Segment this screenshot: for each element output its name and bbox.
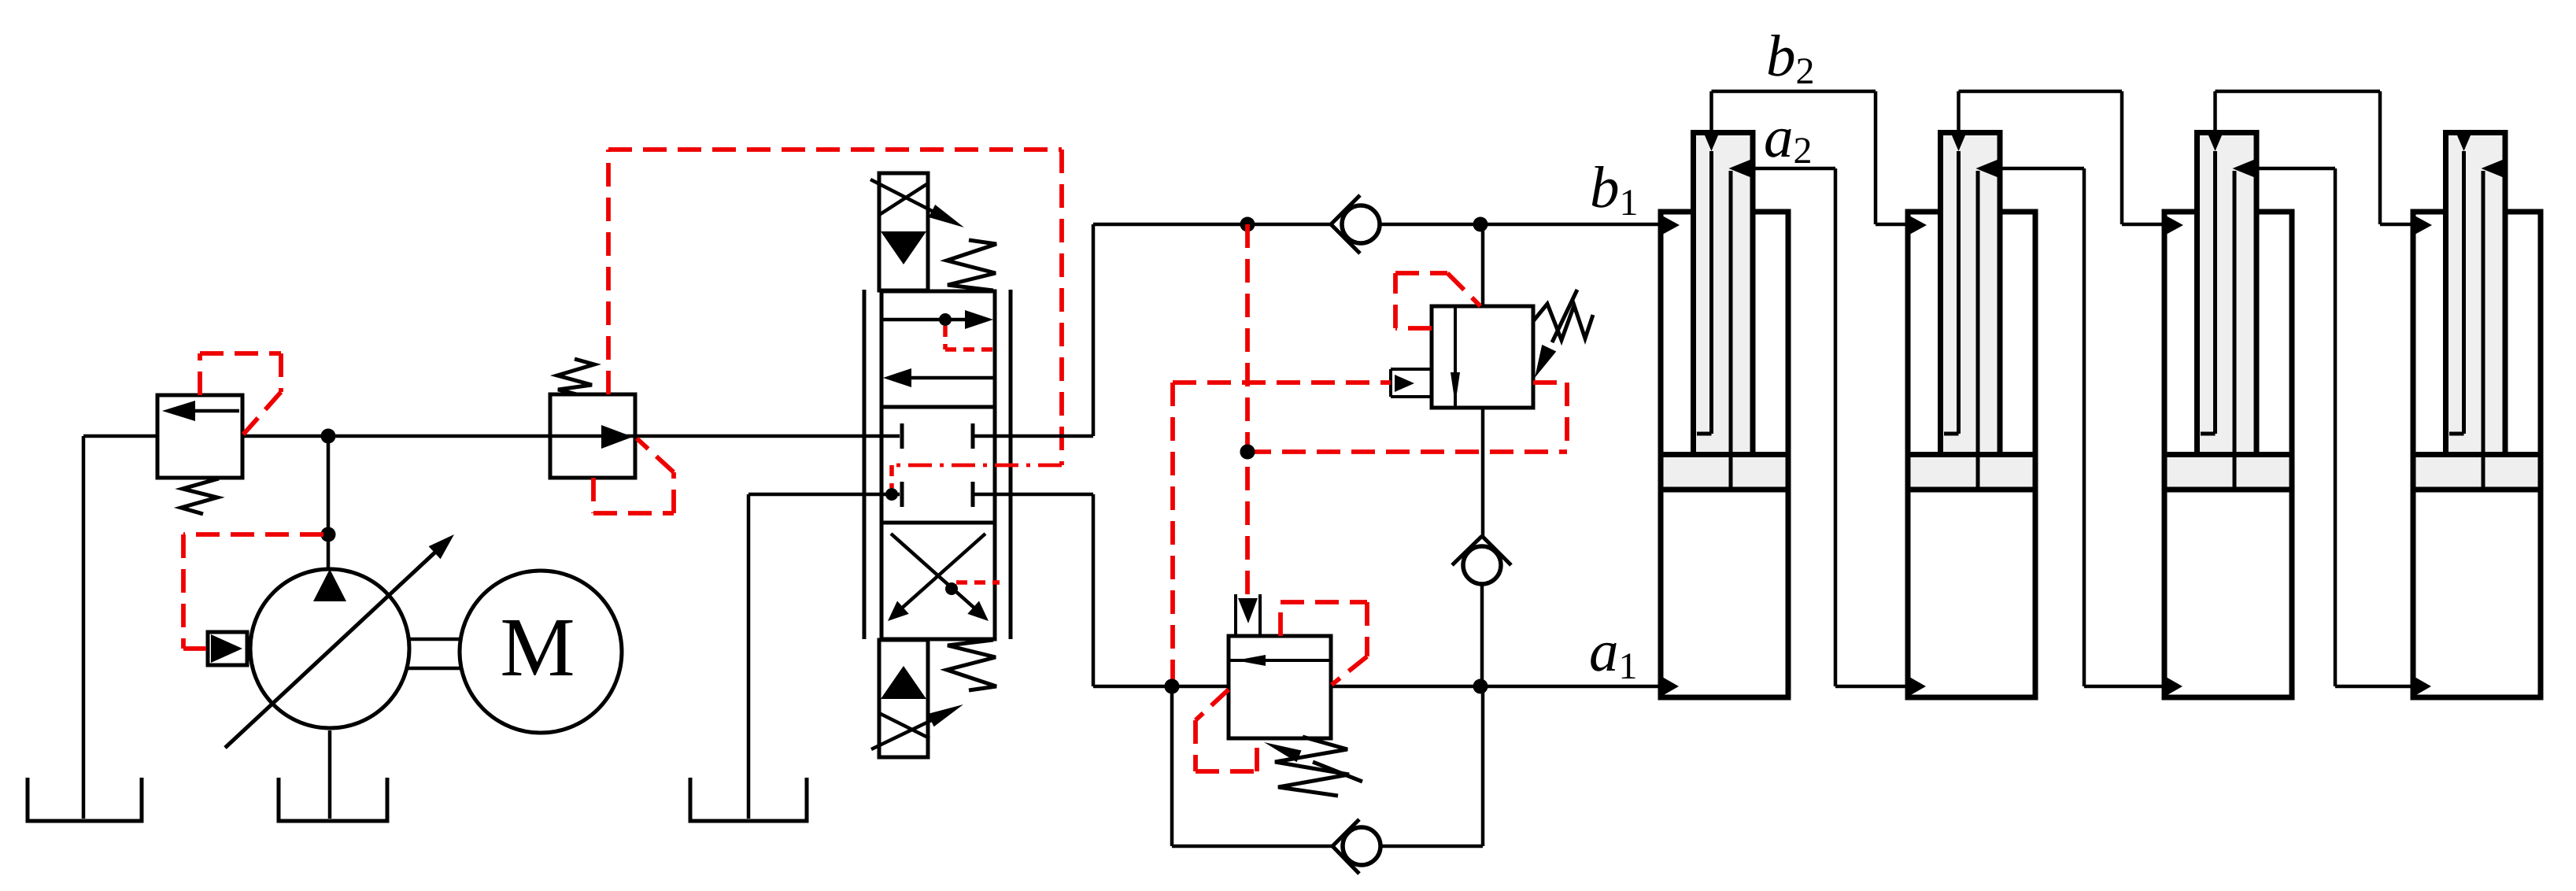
node a1 right dot: [1473, 679, 1488, 694]
CB1 internal passage with down arrow: [1451, 306, 1460, 408]
wire CV2 down to a1: [1480, 584, 1484, 686]
wire CB1 to CV2: [1481, 408, 1485, 537]
wire line a1 left segment: [1093, 685, 1229, 689]
wire DV port A to a1 drop: [973, 494, 1093, 686]
wire main pressure line P (V1 to sequence valve V2 and valve DV port P): [242, 434, 900, 438]
check valve CV3 seat: [1332, 819, 1359, 874]
label b2: [1766, 24, 1815, 92]
wire tank line from V1 down to tank T1: [82, 436, 86, 819]
pilot line (red) V2 drain loop: [593, 438, 674, 513]
telescopic cylinder C4: [2413, 133, 2541, 698]
DV bottom centering spring: [947, 640, 996, 690]
directional valve DV side rail left: [863, 290, 867, 639]
wire DV port T to tank T3: [748, 494, 900, 819]
pump variable arrow: [225, 534, 454, 748]
label a2: [1764, 105, 1813, 172]
sequence valve V2 body: [550, 394, 635, 478]
pilot line (red) DV bottom position tap: [956, 580, 1000, 585]
relief valve V1 spring: [181, 479, 219, 514]
wire b1 branch down to CB1: [1481, 224, 1485, 306]
wire line a1 right segment: [1331, 685, 1664, 689]
wire b cascade from C3 to C4: [2216, 91, 2417, 224]
wire pump outlet riser: [327, 436, 331, 570]
pilot line (red) CB1 drain to line x: [1533, 383, 1567, 452]
pump displacement actuator box: [208, 632, 247, 665]
pilot line (red) pump control: [183, 534, 323, 649]
check valve CV1 ball: [1342, 205, 1380, 243]
pilot line (red) CB1 spring chamber loop: [1395, 273, 1480, 328]
wire DV port B to b1 riser: [973, 224, 1093, 436]
pilot line (red) b1 down to CB2: [1245, 224, 1250, 594]
check valve CV2 seat: [1452, 536, 1511, 565]
pump P1 circle (variable displacement): [250, 569, 409, 728]
node b1 pilot tap dot: [1240, 217, 1255, 232]
counterbalance valve CB1 body: [1432, 306, 1533, 408]
pump outlet triangle: [313, 569, 346, 601]
wire b cascade from C2 to C3: [1959, 91, 2168, 224]
wire b cascade from C1 to C2: [1712, 91, 1912, 224]
CB1 pilot port box: [1391, 369, 1432, 397]
pilot line (red) CB2 drain loop left: [1196, 690, 1257, 771]
pilot line (red) CB2 spring chamber loop right: [1281, 602, 1367, 685]
node DV top position junction dot: [939, 313, 952, 326]
pilot line (red) DV top position tap: [945, 326, 996, 349]
pilot line (red) x run: [1247, 449, 1567, 454]
motor M1 circle: [460, 571, 622, 733]
CB2 internal passage with left arrow: [1229, 655, 1331, 666]
DV center position blocked port bars: [902, 423, 973, 507]
svg-text:M: M: [500, 601, 575, 694]
wire pump to tank T2: [328, 730, 332, 819]
relief valve V1 body: [157, 395, 242, 478]
node a1 left dot overlay: [1165, 679, 1180, 694]
DV top centering spring: [947, 240, 996, 290]
node pilot junction dot: [1240, 445, 1255, 460]
label a1: [1589, 619, 1638, 687]
node junction pump pilot tap: [321, 527, 336, 542]
DV top position flow arrow to left: [883, 368, 995, 387]
wire a1 left down to CV3: [1172, 686, 1332, 846]
node DV bottom position junction dot: [945, 582, 958, 595]
label M: [500, 601, 575, 694]
CB2 top pilot port: [1236, 594, 1260, 636]
tank T2 under pump: [279, 778, 387, 821]
pilot line (red) a1 sense to CB1 pilot: [1173, 383, 1391, 686]
wire line b1 right segment: [1380, 223, 1664, 227]
DV bottom position crossed arrows: [888, 534, 989, 621]
wire a cascade from C2 to C3: [2000, 168, 2168, 686]
counterbalance valve CB2 body: [1229, 636, 1331, 738]
telescopic cylinder C2: [1908, 133, 2035, 698]
sequence valve V2 internal arrow (points right): [601, 425, 633, 449]
check valve CV1 seat: [1331, 195, 1360, 253]
tank T3 under directional valve: [690, 778, 807, 821]
shaft coupling pump-motor: [408, 639, 461, 668]
pilot line (red) V2 remote pilot riser: [606, 150, 611, 394]
telescopic cylinder C1: [1661, 133, 1788, 698]
check valve CV2 ball: [1463, 546, 1501, 584]
node junction on P line above pump: [321, 429, 336, 444]
pilot line (red) DV pilot riser right side: [1059, 150, 1064, 465]
CB1 adjustable spring: [1533, 290, 1593, 378]
check valve CV3 ball: [1343, 827, 1380, 865]
node b1 branch dot: [1473, 217, 1488, 232]
directional valve DV body (three positions): [881, 291, 995, 639]
DV bottom solenoid (proportional): [871, 640, 963, 757]
node DV port A junction dot: [885, 488, 898, 501]
telescopic cylinder C3: [2164, 133, 2292, 698]
label b1: [1590, 155, 1639, 224]
tank T1: [28, 778, 142, 821]
wire a cascade from C3 to C4: [2256, 168, 2416, 686]
DV top position flow arrow to right: [881, 310, 993, 329]
directional valve DV side rail right: [1009, 290, 1013, 639]
wire line b1 left segment: [1093, 223, 1331, 227]
DV top solenoid (proportional): [870, 173, 964, 290]
node a1 left dot: [1165, 679, 1180, 694]
wire CV3 to a1 right: [1380, 686, 1483, 846]
pilot line (red) relief valve V1 loop: [200, 353, 281, 434]
pilot line (red) DV load sense run: [892, 465, 1062, 488]
CB2 adjustable spring: [1264, 737, 1362, 796]
pilot line (red) V2 top run to valve DV: [608, 147, 1062, 152]
sequence valve V2 spring: [557, 359, 594, 394]
node pilot x junction dot overlay: [1240, 445, 1255, 460]
relief valve V1 internal arrow (points left): [162, 401, 239, 421]
wire main pressure line P (tank branch to relief valve V1): [83, 434, 157, 438]
wire a cascade from C1 to C2: [1753, 168, 1911, 686]
